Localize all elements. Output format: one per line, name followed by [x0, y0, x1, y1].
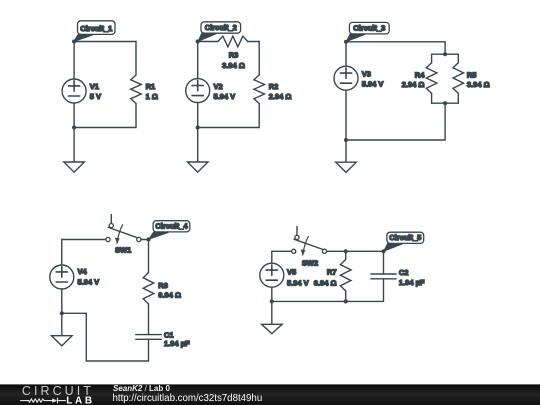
- wire circuit2 top-left: [198, 41, 218, 43]
- svg-text:R6: R6: [158, 281, 168, 290]
- label callout Circuit_2: [198, 22, 241, 42]
- wire R5 bottom lead: [457, 93, 459, 103]
- node parallel top junction: [443, 52, 447, 56]
- capacitor C1: [136, 335, 161, 340]
- svg-text:V2: V2: [214, 82, 223, 91]
- wire C1 bottom lead: [148, 339, 150, 361]
- svg-text:SW2: SW2: [302, 258, 318, 267]
- wire circuit4 return riser: [85, 313, 87, 361]
- wire parallel top bar: [432, 53, 459, 55]
- svg-text:2.94 Ω: 2.94 Ω: [402, 80, 425, 89]
- wire switch SW2 to C2 node: [327, 250, 384, 252]
- svg-text:1 Ω: 1 Ω: [146, 92, 158, 101]
- svg-text:R4: R4: [415, 70, 425, 79]
- wire circuit4 bottom: [86, 360, 148, 362]
- wire ground3 stub: [345, 140, 347, 162]
- svg-text:V5: V5: [287, 267, 296, 276]
- svg-text:V4: V4: [78, 267, 88, 276]
- resistor R1: [131, 75, 142, 104]
- svg-text:V1: V1: [90, 82, 99, 91]
- wire R1 bottom lead: [135, 104, 137, 128]
- voltage source V1: [62, 79, 86, 103]
- svg-text:6.94 Ω: 6.94 Ω: [314, 278, 337, 287]
- wire circuit3 top: [346, 41, 445, 43]
- wire circuit5 bottom: [272, 300, 384, 302]
- voltage source V4: [50, 265, 74, 289]
- wire R4 bottom lead: [431, 93, 433, 103]
- ground circuit3: [336, 162, 357, 172]
- resistor R3: [218, 36, 248, 47]
- svg-text:3.94 Ω: 3.94 Ω: [467, 80, 490, 89]
- resistor R7: [340, 259, 351, 291]
- node circuit3 bottom junction: [344, 138, 348, 142]
- svg-text:Circuit_5: Circuit_5: [389, 233, 421, 242]
- voltage source V3: [334, 66, 358, 90]
- wire circuit2 bottom: [198, 127, 260, 129]
- svg-text:R5: R5: [467, 70, 477, 79]
- wire C2 bottom lead: [383, 279, 385, 302]
- wire ground2 stub: [197, 128, 199, 163]
- ground circuit1: [64, 162, 85, 172]
- wire R2 bottom lead: [258, 104, 260, 128]
- wire R6 to C1: [148, 304, 150, 335]
- wire circuit3 right rail: [444, 103, 446, 140]
- node circuit4 top-right junction: [146, 237, 150, 241]
- wire V3 top lead: [345, 42, 347, 66]
- wire V3 bottom lead: [345, 90, 347, 140]
- node parallel bottom junction: [443, 101, 447, 105]
- node circuit3 top-left junction: [344, 40, 348, 44]
- svg-text:6.94 Ω: 6.94 Ω: [158, 290, 181, 299]
- wire C2 top lead: [383, 251, 385, 274]
- logo diode symbol: [52, 398, 57, 402]
- ground circuit5: [262, 324, 283, 333]
- svg-text:SeanK2 / Lab 0: SeanK2 / Lab 0: [113, 384, 170, 393]
- wire V1 bottom lead: [73, 103, 75, 128]
- svg-text:5.94 V: 5.94 V: [214, 92, 236, 101]
- wire circuit4 return to source: [62, 312, 87, 314]
- node circuit5 bottom-left junction: [270, 299, 274, 303]
- wire ground4 stub: [61, 313, 63, 335]
- wire circuit3 right drop: [444, 42, 446, 54]
- svg-text:Circuit_3: Circuit_3: [353, 24, 385, 33]
- voltage source V2: [186, 79, 210, 103]
- wire parallel bottom bar: [432, 102, 459, 104]
- node circuit1 bottom junction: [72, 125, 76, 129]
- wire R1 top lead: [135, 42, 137, 76]
- wire V4 top lead: [61, 240, 63, 266]
- svg-text:Circuit_4: Circuit_4: [155, 222, 188, 231]
- wire R6 top lead: [148, 240, 150, 273]
- wire circuit2 top-right: [248, 41, 259, 43]
- node circuit1 top-left junction: [72, 39, 76, 43]
- svg-text:R2: R2: [269, 82, 279, 91]
- wire V2 top lead: [197, 42, 199, 79]
- wire switch SW1 to node: [141, 239, 149, 241]
- svg-text:Circuit_1: Circuit_1: [80, 24, 112, 33]
- wire circuit1 top: [74, 41, 136, 43]
- wire R7 top lead: [345, 251, 347, 259]
- ground circuit2: [187, 162, 208, 172]
- ground circuit4: [52, 336, 73, 346]
- svg-text:5 V: 5 V: [90, 92, 101, 101]
- label callout Circuit_4: [149, 221, 190, 240]
- svg-text:V3: V3: [362, 70, 371, 79]
- node circuit2 bottom junction: [196, 125, 200, 129]
- wire circuit3 bottom: [346, 139, 445, 141]
- svg-text:1.94 µF: 1.94 µF: [164, 339, 190, 348]
- svg-text:C1: C1: [164, 330, 174, 339]
- svg-text:R3: R3: [229, 51, 239, 60]
- wire V2 bottom lead: [197, 103, 199, 128]
- wire R5 top lead: [457, 54, 459, 63]
- svg-text:Circuit_2: Circuit_2: [205, 23, 237, 32]
- wire V1 top lead: [73, 42, 75, 80]
- wire circuit4 top-left: [62, 239, 106, 241]
- svg-text:C2: C2: [399, 268, 409, 277]
- svg-text:5.94 V: 5.94 V: [287, 278, 309, 287]
- svg-text:5.94 V: 5.94 V: [362, 80, 384, 89]
- svg-text:1.94 µF: 1.94 µF: [399, 278, 425, 287]
- svg-text:SW1: SW1: [115, 245, 131, 254]
- svg-text:LAB: LAB: [66, 395, 94, 405]
- wire ground1 stub: [73, 128, 75, 163]
- svg-text:http://circuitlab.com/c32ts7d8: http://circuitlab.com/c32ts7d8t49hu: [113, 393, 263, 404]
- switch SW2: [292, 226, 327, 255]
- node C2 top junction: [381, 249, 385, 253]
- svg-text:2.94 Ω: 2.94 Ω: [269, 92, 292, 101]
- resistor R2: [254, 75, 265, 104]
- switch SW1: [106, 215, 141, 244]
- capacitor C2: [371, 274, 396, 279]
- wire V4 bottom lead: [61, 289, 63, 313]
- voltage source V5: [260, 263, 284, 287]
- label callout Circuit_5: [384, 232, 424, 251]
- node R7 top junction: [344, 249, 348, 253]
- resistor R6: [143, 273, 154, 305]
- wire R4 top lead: [431, 54, 433, 63]
- svg-text:5.94 V: 5.94 V: [78, 277, 100, 286]
- wire circuit5 top-left: [272, 250, 292, 252]
- node circuit4 bottom junction: [60, 311, 64, 315]
- resistor R4: [426, 63, 437, 94]
- label callout Circuit_3: [346, 22, 389, 41]
- wire V5 bottom lead: [271, 287, 273, 301]
- node R7 bottom junction: [344, 299, 348, 303]
- svg-text:R1: R1: [146, 82, 156, 91]
- wire V5 top lead: [271, 251, 273, 263]
- logo schematic squiggle wire: [21, 398, 66, 403]
- wire R2 top lead: [258, 42, 260, 76]
- wire ground5 stub: [271, 301, 273, 324]
- wire R7 bottom lead: [345, 291, 347, 301]
- svg-text:3.94 Ω: 3.94 Ω: [222, 61, 245, 70]
- wire circuit1 bottom: [74, 127, 136, 129]
- resistor R5: [453, 63, 464, 94]
- label callout Circuit_1: [74, 21, 115, 42]
- node circuit2 top-left junction: [196, 39, 200, 43]
- svg-text:R7: R7: [327, 267, 337, 276]
